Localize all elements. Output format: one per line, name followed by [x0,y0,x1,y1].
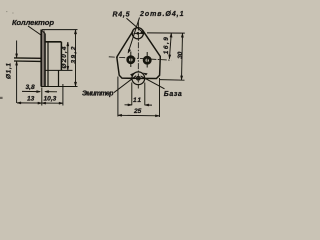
svg-text:30: 30 [177,51,184,59]
svg-text:11: 11 [133,97,141,104]
svg-text:R4,5: R4,5 [113,12,130,19]
svg-text:Коллектор: Коллектор [12,18,54,27]
svg-text:25: 25 [133,108,142,115]
svg-text:2отв.Ø4,1: 2отв.Ø4,1 [139,11,184,18]
svg-text:Эмиттер: Эмиттер [82,91,114,98]
svg-text:10,3: 10,3 [44,96,57,103]
svg-text:База: База [164,91,182,98]
svg-text:13: 13 [27,96,35,103]
svg-text:Ø1,1: Ø1,1 [6,63,13,79]
svg-text:3,8: 3,8 [26,84,35,91]
svg-text:Ø20,4: Ø20,4 [61,46,68,68]
